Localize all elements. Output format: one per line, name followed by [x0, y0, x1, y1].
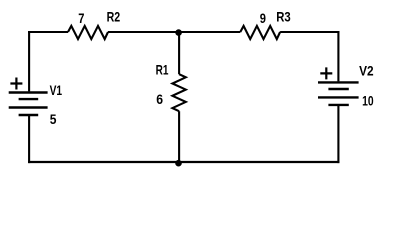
V2 plate long bottom: [318, 96, 359, 98]
svg-text:R1: R1: [156, 62, 169, 78]
V2 plate short bottom: [328, 104, 348, 106]
V2 plate short: [328, 88, 348, 90]
battery V1: [9, 78, 48, 116]
wire top-left segment: [28, 31, 68, 33]
V1 plate short: [19, 98, 39, 100]
wire middle vertical upper: [178, 32, 180, 74]
resistor R1: [172, 74, 185, 111]
V1 plate short bottom: [19, 114, 39, 116]
wire top-middle segment: [108, 31, 240, 33]
junction node bottom: [175, 160, 182, 167]
svg-text:R3: R3: [276, 9, 291, 25]
svg-text:6: 6: [156, 91, 163, 107]
svg-text:7: 7: [78, 10, 84, 26]
svg-text:V1: V1: [50, 82, 63, 98]
wire top-right segment: [280, 31, 339, 33]
wire middle vertical lower: [178, 111, 180, 162]
svg-text:9: 9: [260, 10, 266, 26]
wire bottom segment: [28, 161, 339, 163]
plus sign of V2: [320, 67, 332, 79]
svg-text:5: 5: [50, 111, 57, 127]
wire right vertical upper: [337, 31, 339, 81]
battery V2: [318, 67, 359, 105]
resistor R3: [240, 26, 280, 39]
wire left vertical upper: [28, 31, 30, 91]
junction node top: [175, 29, 182, 36]
resistor R2: [68, 26, 108, 39]
V1 plate long top: [9, 91, 48, 93]
wire left vertical lower: [28, 115, 30, 163]
V2 plate long top: [318, 81, 359, 83]
svg-text:10: 10: [362, 93, 374, 109]
V1 plate long bottom: [9, 106, 48, 108]
wire right vertical lower: [337, 105, 339, 163]
svg-text:R2: R2: [107, 9, 121, 25]
svg-text:V2: V2: [359, 63, 374, 79]
plus sign of V1: [10, 78, 22, 90]
